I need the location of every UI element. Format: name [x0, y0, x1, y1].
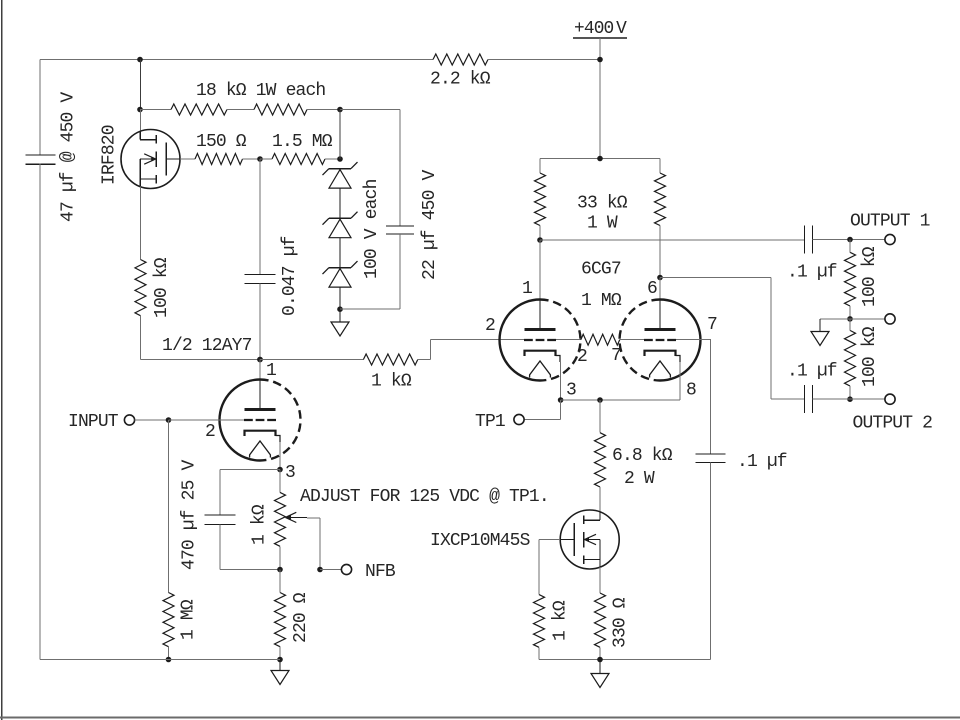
wire cathode to 470uf top: [220, 469, 280, 471]
triode V1 1/2 12AY7: [220, 380, 301, 461]
wire wiper to corner: [307, 517, 320, 519]
svg-text:2: 2: [577, 347, 587, 367]
wire 1.5M lead right: [325, 158, 340, 160]
wire 33k right bottom lead: [659, 226, 661, 278]
junction cathode node: [277, 467, 283, 473]
wire bottom rail left: [40, 659, 280, 661]
junction input node: [166, 417, 172, 423]
wire 150 to junction: [243, 158, 261, 160]
junction pot bottom node: [277, 567, 283, 573]
label +400 V: [574, 19, 627, 39]
junction +400V at top rail: [597, 57, 603, 63]
svg-text:220 Ω: 220 Ω: [291, 592, 311, 643]
resistor R-2.2k (2.2 k&#937;): [433, 54, 488, 65]
terminal output common: [885, 314, 895, 324]
wire input to grid: [169, 419, 245, 421]
wire 33k top rail: [540, 158, 660, 160]
svg-text:OUTPUT 1: OUTPUT 1: [850, 212, 930, 232]
zener D1 (100 V): [323, 162, 358, 188]
svg-text:100 kΩ: 100 kΩ: [860, 326, 880, 387]
wire 470uf bottom drop: [219, 525, 221, 570]
label .1 uf grid cap: [737, 452, 787, 472]
label 1 MOhm: [179, 599, 199, 640]
wire out2 cap to node: [813, 398, 886, 400]
label 1 kOhm pot: [250, 504, 270, 545]
junction out2 node: [847, 396, 853, 402]
junction 18k branch: [137, 107, 143, 113]
wire elbow up: [430, 340, 432, 360]
label 18 kOhm 1W each: [196, 81, 325, 101]
resistor R-1.5M (1.5 M&#937;): [272, 154, 325, 165]
wire 0.047 to plate node: [259, 284, 261, 360]
pin 7 grid label: [611, 346, 621, 366]
label NFB: [365, 562, 396, 582]
wire 100k to plate node: [140, 316, 142, 360]
junction right plate node: [657, 275, 663, 281]
svg-text:1 kΩ: 1 kΩ: [551, 600, 571, 641]
zener D2 (100 V): [323, 212, 358, 238]
svg-text:7: 7: [707, 315, 717, 335]
resistor R-150 (150 &#937;): [195, 154, 243, 165]
wire IXCP gate lead: [539, 539, 560, 541]
junction left plate node: [537, 237, 543, 243]
svg-text:8: 8: [686, 381, 696, 401]
label 1 kOhm gate: [551, 600, 571, 641]
label 1.5 MOhm: [272, 132, 333, 152]
label 100 kOhm out1: [860, 246, 880, 307]
svg-text:1 kΩ: 1 kΩ: [371, 372, 412, 392]
wire out1 cap to node: [813, 239, 886, 241]
svg-text:.1 µf: .1 µf: [737, 452, 787, 472]
wire 1M top lead: [168, 420, 170, 593]
terminal INPUT: [124, 415, 134, 425]
junction NFB node: [317, 567, 323, 573]
wire 220 top lead: [279, 570, 281, 593]
wire plate node horizontal: [141, 359, 261, 361]
svg-text:33 kΩ: 33 kΩ: [577, 194, 628, 214]
svg-text:3: 3: [285, 463, 295, 483]
capacitor C-47uf (47 &#181;f @ 450 V): [26, 155, 56, 164]
wire left rail vertical upper: [39, 60, 41, 156]
svg-text:OUTPUT 2: OUTPUT 2: [853, 414, 933, 434]
svg-text:7: 7: [611, 346, 621, 366]
svg-text:.1 µf: .1 µf: [787, 263, 837, 283]
wire 100k out2 bottom lead: [849, 386, 851, 399]
wire 220 bottom lead: [279, 647, 281, 660]
resistor R-220 (220 &#937;): [275, 593, 286, 647]
wire grid cap drop: [710, 340, 712, 454]
capacitor C-470uf (470 &#181;f 25 V): [205, 515, 236, 525]
pin 1 of 6CG7: [522, 279, 532, 299]
label IRF820: [100, 125, 120, 185]
svg-text:IRF820: IRF820: [100, 125, 120, 185]
wire left cathode drop: [560, 362, 562, 400]
junction right ground node: [597, 657, 603, 663]
ground input stage: [271, 660, 289, 685]
resistor R-18k-b (18 k&#937;): [254, 104, 307, 115]
wire zener3 to bottom node: [339, 287, 341, 309]
wire TP1 drop: [560, 400, 562, 420]
label 6.8 kOhm: [612, 446, 673, 466]
wire gate node down: [259, 159, 261, 275]
label 47 uf @ 450 V: [59, 92, 79, 222]
junction out1 node: [847, 237, 853, 243]
resistor R-330 (330 &#937;): [595, 593, 606, 647]
wire 22uf top drop: [399, 110, 401, 227]
wire 1.5M lead left: [260, 158, 272, 160]
zener D3 (100 V): [323, 261, 358, 287]
resistor R-100k-out2 (100 k&#937;): [845, 330, 856, 386]
label 100 kOhm: [152, 257, 172, 318]
wire 22uf bottom drop: [399, 234, 401, 309]
svg-text:100 V each: 100 V each: [362, 179, 382, 279]
resistor R-1M-input (1 M&#937;): [163, 593, 174, 647]
label ADJUST FOR 125 VDC @ TP1.: [300, 487, 549, 507]
label 100 kOhm out2: [860, 326, 880, 387]
resistor R-1M-grids (1 M&#937;): [581, 334, 620, 345]
wire grid cap to ground rail: [710, 463, 712, 660]
wire 12AY7 cathode drop: [279, 442, 281, 470]
label 150 Ohm: [196, 132, 247, 152]
wire drain drop: [139, 60, 141, 110]
junction top rail / drain branch: [137, 57, 143, 63]
junction cathode bus left: [558, 397, 564, 403]
potentiometer R-1k (1 k&#937;): [275, 492, 286, 546]
pin 7 of 6CG7: [707, 315, 717, 335]
svg-text:1: 1: [522, 279, 532, 299]
resistor R-33k-a (33 k&#937;): [535, 173, 546, 226]
wire top rail left: [40, 59, 433, 61]
triode V2b 6CG7: [620, 300, 701, 381]
wire 33k left top lead: [539, 159, 541, 174]
wire pot bottom to node: [279, 546, 281, 569]
svg-text:1 MΩ: 1 MΩ: [179, 599, 199, 640]
pin 3 of 6CG7: [566, 381, 576, 401]
wire output2 to cap: [771, 398, 805, 400]
wire zener1-2: [339, 188, 341, 218]
wire cathode bus: [561, 399, 680, 401]
label .1 uf out1: [787, 263, 837, 283]
pin 2 grid label: [577, 347, 587, 367]
label 33 kOhm: [577, 194, 628, 214]
capacitor C-0.047 (0.047 &#181;f): [245, 275, 276, 284]
pin 6 of 6CG7: [647, 279, 657, 299]
junction cathode bus mid: [597, 397, 603, 403]
wire zener2-3: [339, 238, 341, 268]
wire 18k to zener node: [307, 109, 340, 111]
wire gate resistor drop: [538, 540, 540, 595]
resistor R-18k-a (18 k&#937;): [171, 104, 227, 115]
wire cathode to pot: [279, 470, 281, 493]
junction 33k top node: [597, 156, 603, 162]
svg-text:6: 6: [647, 279, 657, 299]
svg-text:1: 1: [266, 361, 276, 381]
wire output1 feed: [540, 239, 805, 241]
wire bottom rail right: [539, 659, 711, 661]
wire to 18k: [140, 109, 171, 111]
svg-text:470 µf 25 V: 470 µf 25 V: [180, 459, 200, 570]
svg-text:1 kΩ: 1 kΩ: [250, 504, 270, 545]
wire 1M bottom lead: [168, 647, 170, 660]
capacitor C-out1 (.1 &#181;f): [805, 226, 813, 254]
label .1 uf out2: [787, 362, 837, 382]
pin 1 of 12AY7: [266, 361, 276, 381]
wire 100k out1 top lead: [849, 240, 851, 253]
label 220 Ohm: [291, 592, 311, 643]
capacitor C-22uf (22 &#181;f 450 V): [386, 226, 414, 234]
wire +400V drop: [599, 38, 601, 159]
wire mid node to ground: [820, 318, 850, 320]
junction zener bottom node: [337, 306, 343, 312]
wire output2 feed horizontal: [660, 277, 771, 279]
svg-text:6.8 kΩ: 6.8 kΩ: [612, 446, 673, 466]
wire mid node to terminal: [850, 318, 885, 320]
resistor R-33k-b (33 k&#937;): [655, 173, 666, 226]
capacitor C-grid (.1 &#181;f): [696, 454, 726, 463]
wire plate to 1k: [260, 359, 363, 361]
wire right grid out: [676, 339, 711, 341]
wire 12AY7 plate lead: [259, 360, 261, 410]
label 100 V each: [362, 179, 382, 279]
wire drain into IRF820: [139, 110, 141, 132]
label 1 MOhm coupling: [581, 291, 622, 311]
triode V2a 6CG7: [500, 300, 581, 381]
terminal NFB: [341, 564, 351, 574]
pin 8 of 6CG7: [686, 381, 696, 401]
wire 100k out2 top lead: [849, 319, 851, 331]
svg-text:2 W: 2 W: [624, 469, 655, 489]
wire 1k to elbow: [418, 359, 431, 361]
wire output2 feed drop: [770, 278, 772, 400]
label OUTPUT 1: [850, 212, 930, 232]
wire right cathode drop: [679, 362, 681, 400]
pin 2 of 12AY7: [205, 422, 215, 442]
svg-text:47 µf @ 450 V: 47 µf @ 450 V: [59, 92, 79, 222]
power +400V symbol: [573, 37, 627, 39]
capacitor C-out2 (.1 &#181;f): [805, 385, 813, 413]
svg-text:+400 V: +400 V: [574, 19, 627, 39]
ground output stage: [591, 660, 609, 688]
label 470 uf 25 V: [180, 459, 200, 570]
svg-text:ADJUST FOR 125 VDC @ TP1.: ADJUST FOR 125 VDC @ TP1.: [300, 487, 549, 507]
resistor R-100k (100 k&#937;): [135, 260, 146, 316]
pin 3 of 12AY7: [285, 463, 295, 483]
junction plate node: [257, 357, 263, 363]
junction gate node: [257, 156, 263, 162]
svg-text:150 Ω: 150 Ω: [196, 132, 247, 152]
svg-text:TP1: TP1: [475, 412, 505, 432]
wire zener node drop: [339, 110, 341, 160]
junction 220 ground node: [277, 657, 283, 663]
svg-text:.1 µf: .1 µf: [787, 362, 837, 382]
ground output divider: [811, 319, 829, 346]
wire 100k out1 bottom lead: [849, 306, 851, 319]
svg-text:330 Ω: 330 Ω: [611, 597, 631, 648]
junction 1M ground node: [166, 657, 172, 663]
wire left plate drop: [539, 240, 541, 330]
resistor R-6.8k (6.8 k&#937;): [595, 433, 606, 487]
wire left grid inner link: [556, 339, 581, 341]
junction zener top node: [337, 107, 343, 113]
wire 6.8k to IXCP: [599, 487, 601, 512]
svg-text:1.5 MΩ: 1.5 MΩ: [272, 132, 333, 152]
wire between 18k pair: [227, 109, 254, 111]
resistor R-1k-gate (1 k&#937;): [534, 595, 545, 648]
label 2.2 kOhm: [430, 70, 491, 90]
ground zener stack: [331, 309, 349, 336]
wire left rail vertical lower: [39, 164, 41, 660]
svg-text:100 kΩ: 100 kΩ: [152, 257, 172, 318]
wire TP1 lead: [524, 419, 561, 421]
potentiometer wiper arrow: [285, 512, 307, 522]
wire 470uf bottom to node: [220, 569, 280, 571]
resistor R-100k-out1 (100 k&#937;): [845, 252, 856, 306]
svg-text:INPUT: INPUT: [68, 412, 119, 432]
svg-text:3: 3: [566, 381, 576, 401]
wire node to NFB: [320, 569, 342, 571]
svg-text:22 µf 450 V: 22 µf 450 V: [420, 169, 440, 280]
label 2 W: [624, 469, 655, 489]
wire 33k right top lead: [659, 159, 661, 174]
resistor R-1k-grid (1 k&#937;): [363, 354, 417, 365]
wire 330 bottom lead: [599, 647, 601, 659]
wire 33k left bottom lead: [539, 226, 541, 241]
label 1/2 12AY7: [162, 336, 252, 356]
label 1 kOhm grid: [371, 372, 412, 392]
label 22 uf 450 V: [420, 169, 440, 280]
wire right plate drop: [659, 278, 661, 330]
svg-text:2.2 kΩ: 2.2 kΩ: [430, 70, 491, 90]
wire top rail right: [488, 59, 600, 61]
wire gate to 150: [180, 158, 195, 160]
wire input to junction: [135, 419, 169, 421]
label TP1: [475, 412, 505, 432]
terminal OUTPUT 2: [885, 394, 895, 404]
svg-text:1/2 12AY7: 1/2 12AY7: [162, 336, 252, 356]
label INPUT: [68, 412, 119, 432]
wire zener node to 22uf top: [340, 109, 400, 111]
svg-text:2: 2: [205, 422, 215, 442]
label 6CG7: [581, 260, 621, 280]
svg-text:0.047 µf: 0.047 µf: [280, 236, 300, 316]
svg-text:1 W: 1 W: [587, 214, 618, 234]
label 330 Ohm: [611, 597, 631, 648]
transistor Q1 IRF820: [121, 130, 180, 189]
terminal TP1: [514, 414, 524, 424]
transistor Q2 IXCP10M45S: [560, 510, 619, 569]
junction zener stack top: [337, 156, 343, 162]
label 0.047 uf: [280, 236, 300, 316]
svg-text:6CG7: 6CG7: [581, 260, 621, 280]
wire wiper drop: [319, 518, 321, 570]
wire IRF820 source drop: [139, 187, 141, 260]
wire 1k gate bottom lead: [538, 647, 540, 659]
label IXCP10M45S: [430, 531, 530, 551]
svg-text:100 kΩ: 100 kΩ: [860, 246, 880, 307]
wire 22uf bottom to zener node: [340, 308, 400, 310]
label OUTPUT 2: [853, 414, 933, 434]
wire 470uf top drop: [219, 470, 221, 516]
svg-text:2: 2: [485, 316, 495, 336]
wire IXCP source drop: [599, 567, 601, 593]
svg-text:IXCP10M45S: IXCP10M45S: [430, 531, 530, 551]
label 1 W: [587, 214, 618, 234]
pin 2 of 6CG7: [485, 316, 495, 336]
wire to left grid: [431, 339, 524, 341]
junction output mid node: [847, 316, 853, 322]
junction plate node at tube: [257, 357, 263, 363]
svg-text:NFB: NFB: [365, 562, 396, 582]
wire 6.8k top lead: [599, 400, 601, 433]
terminal OUTPUT 1: [885, 234, 895, 244]
wire right grid inner link: [620, 339, 644, 341]
svg-text:18 kΩ 1W each: 18 kΩ 1W each: [196, 81, 325, 101]
svg-text:1 MΩ: 1 MΩ: [581, 291, 622, 311]
